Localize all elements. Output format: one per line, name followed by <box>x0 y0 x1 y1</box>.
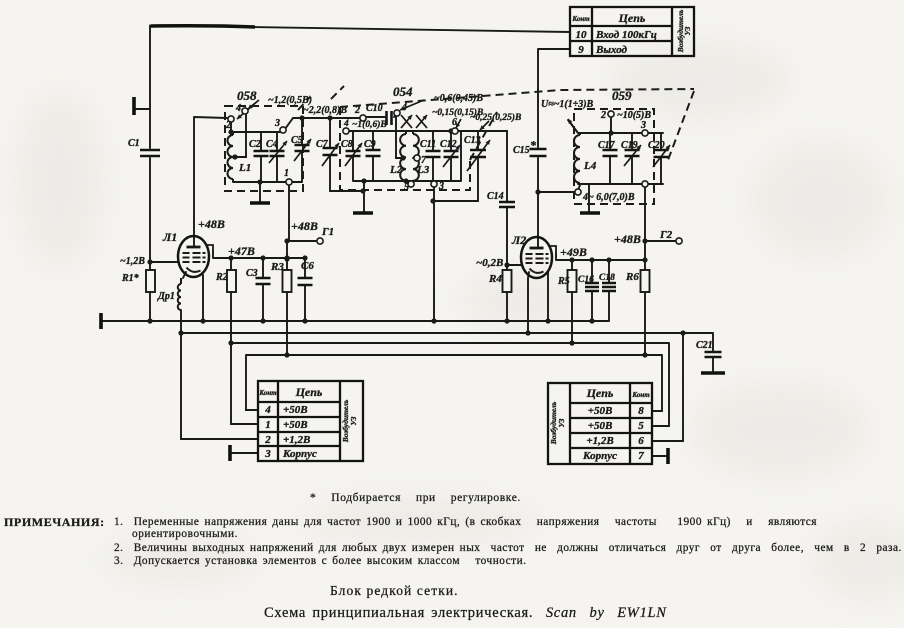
svg-text:R3: R3 <box>270 261 284 273</box>
svg-text:Л2: Л2 <box>511 233 526 247</box>
svg-text:C21: C21 <box>696 340 713 351</box>
svg-text:Др1: Др1 <box>157 291 175 302</box>
svg-text:+48В: +48В <box>614 232 641 246</box>
svg-text:Л1: Л1 <box>162 230 177 244</box>
svg-text:3: 3 <box>438 181 444 192</box>
svg-text:Конт: Конт <box>631 391 650 399</box>
svg-text:C19: C19 <box>621 140 638 151</box>
svg-text:054: 054 <box>393 84 413 99</box>
svg-text:4: 4 <box>264 404 271 416</box>
svg-text:Г1: Г1 <box>321 226 334 238</box>
svg-text:3. Допускается установка элем: 3. Допускается установка элементов с бол… <box>114 555 527 567</box>
svg-text:~10(5)В: ~10(5)В <box>617 110 651 121</box>
svg-text:4: 4 <box>235 103 241 114</box>
svg-text:+50В: +50В <box>283 419 308 431</box>
svg-text:Корпус: Корпус <box>582 450 617 462</box>
svg-text:R1*: R1* <box>121 273 140 284</box>
svg-text:R4: R4 <box>488 273 502 285</box>
svg-text:C10: C10 <box>366 103 383 114</box>
svg-text:C1: C1 <box>128 138 140 149</box>
svg-text:C16: C16 <box>578 275 594 285</box>
svg-text:U≈~1(1÷3)В: U≈~1(1÷3)В <box>541 99 594 110</box>
svg-text:С11: С11 <box>420 139 436 150</box>
svg-text:Цепь: Цепь <box>618 11 646 25</box>
svg-text:ПРИМЕЧАНИЯ:: ПРИМЕЧАНИЯ: <box>4 515 105 529</box>
svg-text:C3: C3 <box>246 268 258 279</box>
svg-text:+49В: +49В <box>560 245 587 259</box>
svg-text:Вход 100кГц: Вход 100кГц <box>595 29 657 41</box>
svg-text:C2: C2 <box>249 139 261 150</box>
svg-text:УЗ: УЗ <box>349 416 358 425</box>
svg-text:3: 3 <box>640 120 646 131</box>
svg-text:+50В: +50В <box>588 405 613 417</box>
svg-text:8: 8 <box>638 405 644 417</box>
svg-text:2: 2 <box>600 110 606 121</box>
svg-text:* Подбирается при регулиров: * Подбирается при регулировке. <box>310 492 521 504</box>
svg-text:C9: C9 <box>364 139 376 150</box>
svg-text:C12: C12 <box>440 139 457 150</box>
svg-text:~0,6(0,45)В: ~0,6(0,45)В <box>434 93 483 104</box>
svg-text:4: 4 <box>343 119 349 129</box>
svg-text:059: 059 <box>612 88 632 103</box>
svg-text:+48В: +48В <box>198 217 225 231</box>
svg-text:2: 2 <box>354 105 360 116</box>
svg-text:C14: C14 <box>487 191 504 202</box>
svg-text:4~ 6,0(7,0)В: 4~ 6,0(7,0)В <box>582 192 635 203</box>
svg-text:R2: R2 <box>215 272 228 283</box>
svg-text:ориентировочными.: ориентировочными. <box>132 528 238 540</box>
svg-text:2: 2 <box>264 434 271 446</box>
svg-text:7: 7 <box>638 450 644 462</box>
svg-text:Выход: Выход <box>595 44 628 56</box>
svg-text:C4: C4 <box>266 139 278 150</box>
svg-text:6: 6 <box>452 117 457 128</box>
svg-text:5: 5 <box>404 182 409 193</box>
svg-text:058: 058 <box>237 88 257 103</box>
svg-text:Корпус: Корпус <box>282 448 317 460</box>
svg-text:C8: C8 <box>341 139 353 150</box>
svg-text:Блок редкой сетки.: Блок редкой сетки. <box>330 583 459 598</box>
svg-text:9: 9 <box>578 44 584 56</box>
svg-text:C15: C15 <box>513 145 530 156</box>
svg-text:L1: L1 <box>238 162 251 174</box>
svg-text:C20: C20 <box>648 140 665 151</box>
svg-text:C17: C17 <box>598 140 616 151</box>
svg-text:~1(0,6)В: ~1(0,6)В <box>352 119 387 130</box>
svg-text:Конт: Конт <box>258 389 277 397</box>
svg-text:УЗ: УЗ <box>557 418 566 427</box>
svg-text:R5: R5 <box>557 276 570 287</box>
svg-text:+48В: +48В <box>291 219 318 233</box>
svg-text:~2,2(0,8)В: ~2,2(0,8)В <box>303 105 347 116</box>
svg-text:~0,2В: ~0,2В <box>476 257 503 269</box>
svg-text:2. Величины выходных напряжен: 2. Величины выходных напряжений для любы… <box>114 542 902 554</box>
svg-text:2: 2 <box>225 120 231 131</box>
svg-text:1: 1 <box>284 168 289 179</box>
svg-text:3: 3 <box>264 448 271 460</box>
svg-text:+1,2В: +1,2В <box>283 434 310 446</box>
svg-text:C7: C7 <box>316 139 329 150</box>
svg-text:R6: R6 <box>625 271 639 283</box>
svg-text:Конт: Конт <box>571 15 590 23</box>
svg-text:4: 4 <box>401 102 407 113</box>
svg-text:УЗ: УЗ <box>683 26 692 35</box>
svg-text:C18: C18 <box>599 273 615 283</box>
svg-text:~0,25(0,25)В: ~0,25(0,25)В <box>470 112 521 123</box>
svg-text:+47В: +47В <box>228 244 255 258</box>
svg-text:C13: C13 <box>464 135 481 146</box>
svg-text:10: 10 <box>576 29 588 41</box>
svg-text:1: 1 <box>265 419 271 431</box>
svg-text:*: * <box>530 138 537 152</box>
svg-text:3: 3 <box>274 118 280 129</box>
svg-text:+50В: +50В <box>588 420 613 432</box>
svg-text:L2: L2 <box>389 164 403 176</box>
svg-text:C5: C5 <box>291 135 303 146</box>
svg-text:Г2: Г2 <box>659 229 673 241</box>
svg-text:5: 5 <box>638 420 644 432</box>
svg-text:Схема принципиальная электриче: Схема принципиальная электрическая. Scan… <box>264 605 667 621</box>
svg-text:L4: L4 <box>583 160 597 172</box>
svg-text:Цепь: Цепь <box>295 385 323 399</box>
svg-text:C6: C6 <box>301 260 314 272</box>
svg-text:~1,2В: ~1,2В <box>120 256 145 267</box>
svg-text:+50В: +50В <box>283 404 308 416</box>
svg-text:6: 6 <box>638 435 644 447</box>
svg-text:+1,2В: +1,2В <box>586 435 613 447</box>
svg-text:1. Переменные напряжения даны: 1. Переменные напряжения даны для частот… <box>114 516 817 528</box>
svg-text:Цепь: Цепь <box>586 386 614 400</box>
